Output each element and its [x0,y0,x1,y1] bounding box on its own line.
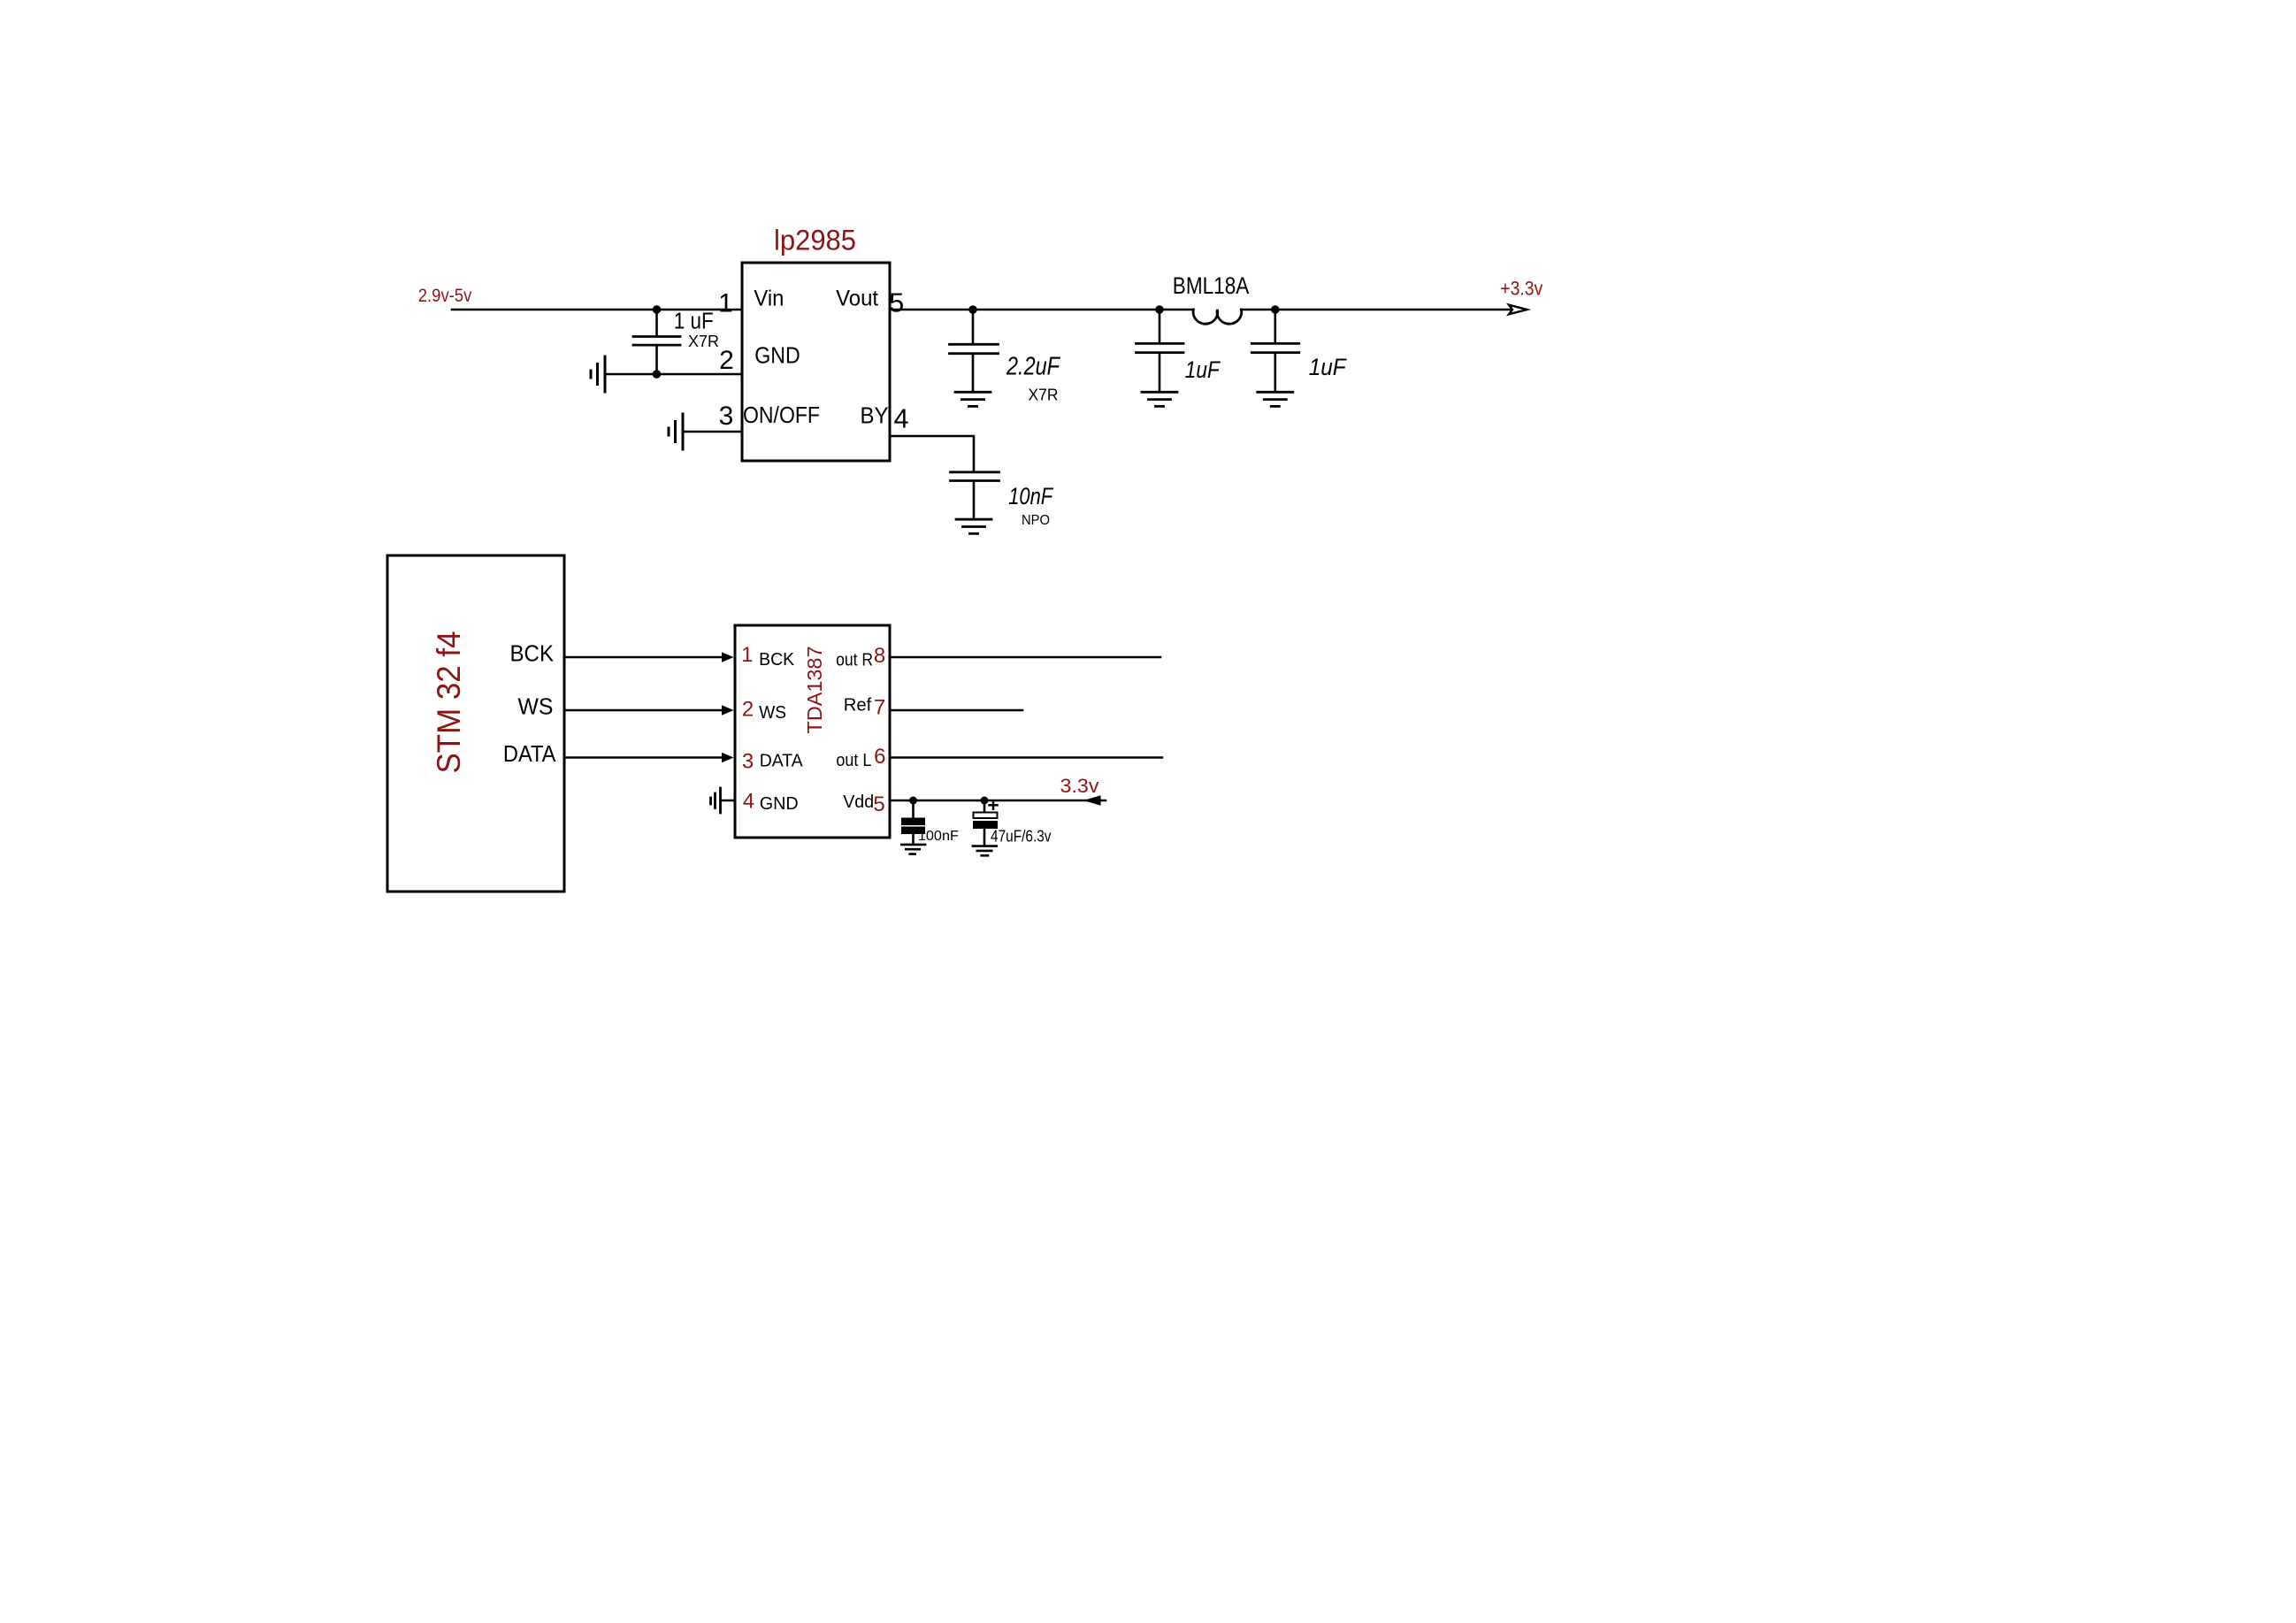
ground pin4 tda [711,788,721,813]
MCU box STM 32 f4 [387,555,564,892]
ground 1uF second [1258,392,1293,406]
svg-text:6: 6 [874,745,885,769]
svg-text:WS: WS [759,702,786,723]
inductor BML18A [1193,310,1242,324]
svg-text:TDA1387: TDA1387 [803,647,826,734]
arrowhead 3.3v supply [1083,795,1101,805]
svg-text:BY: BY [861,402,889,428]
wire after inductor [1241,309,1514,311]
ground 1uF first [1142,392,1177,406]
svg-text:2: 2 [719,346,734,375]
svg-text:5: 5 [873,792,884,816]
arrowhead WS [722,705,734,716]
svg-text:2.2uF: 2.2uF [1006,353,1061,381]
wire pin4 gnd [721,800,736,802]
ground 10nF [956,519,991,533]
svg-text:+3.3v: +3.3v [1500,278,1542,300]
wire Ref [890,709,1022,712]
svg-text:out R: out R [836,650,873,670]
svg-text:7: 7 [874,696,885,720]
ground 47uF [973,846,997,856]
svg-text:1uF: 1uF [1185,356,1221,383]
svg-text:DATA: DATA [760,751,803,771]
arrowhead BCK [722,652,734,662]
svg-text:Vdd: Vdd [843,792,874,812]
svg-text:out L: out L [836,751,871,770]
svg-text:4: 4 [743,789,754,813]
svg-text:1 uF: 1 uF [674,310,714,334]
junction input node [653,305,662,314]
svg-text:ON/OFF: ON/OFF [743,402,820,428]
junction Vdd node 1 [909,797,917,805]
svg-text:GND: GND [760,793,799,814]
svg-text:Vin: Vin [754,287,784,311]
wire WS [564,709,723,712]
svg-text:100nF: 100nF [918,829,959,844]
plus sign 47uF [990,801,998,809]
svg-text:3: 3 [719,402,734,431]
capacitor C 2.2uF [950,310,999,392]
svg-text:1: 1 [718,289,733,318]
svg-text:X7R: X7R [688,333,719,350]
capacitor C 47uF polarized [973,800,998,846]
ground 100nF [901,845,925,854]
wire out L [890,756,1162,759]
capacitor C 100nF [901,800,925,844]
ground pin3 [669,414,683,449]
IC U1 lp2985 regulator box [742,263,890,461]
capacitor C 1uF first [1137,310,1184,392]
svg-text:2: 2 [742,698,754,722]
arrowhead DATA [722,753,734,763]
wire pin2 GND [605,373,742,376]
capacitor C 10nF [951,472,999,518]
ground pin2 [591,356,605,392]
svg-text:X7R: X7R [1029,387,1059,404]
svg-text:47uF/6.3v: 47uF/6.3v [991,827,1052,846]
svg-text:10nF: 10nF [1008,483,1053,509]
junction node L in [1155,305,1164,314]
svg-text:BCK: BCK [759,649,794,670]
wire BCK [564,656,723,659]
wire input [452,309,742,311]
svg-text:lp2985: lp2985 [774,225,856,256]
wire pin3 ON/OFF [683,431,742,433]
DAC box TDA1387 [735,625,890,838]
svg-text:2.9v-5v: 2.9v-5v [418,286,472,306]
svg-text:3: 3 [742,750,754,774]
ground 2.2uF [955,392,991,406]
svg-text:8: 8 [874,644,885,668]
svg-text:NPO: NPO [1022,513,1050,528]
svg-text:Ref: Ref [844,696,872,716]
wire DATA [564,756,723,759]
capacitor Cin 1 uF [633,310,680,374]
wire out R [890,656,1160,659]
junction Vdd node 2 [981,797,989,805]
svg-text:WS: WS [518,695,554,720]
svg-text:BML18A: BML18A [1173,272,1250,299]
svg-text:1: 1 [741,643,753,667]
wire BY pin4 [890,436,974,471]
junction gnd node [653,370,662,379]
svg-text:4: 4 [894,403,909,433]
wire Vout output [890,309,1193,311]
svg-text:Vout: Vout [836,287,878,311]
svg-text:DATA: DATA [503,742,556,767]
capacitor C 1uF second [1251,310,1299,392]
svg-text:1uF: 1uF [1309,354,1348,380]
svg-text:BCK: BCK [510,642,555,667]
junction Vout node [968,305,977,314]
svg-text:5: 5 [889,287,904,318]
svg-text:STM 32 f4: STM 32 f4 [431,632,467,774]
arrow output +3.3v [1509,305,1527,315]
svg-text:3.3v: 3.3v [1060,775,1099,797]
svg-text:GND: GND [754,344,800,369]
wire Vdd 3.3v [890,800,1106,802]
junction node L out [1271,305,1280,314]
